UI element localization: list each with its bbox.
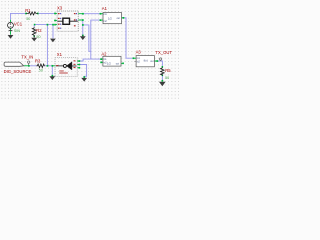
svg-text:X3: X3 xyxy=(57,5,63,10)
svg-text:R1: R1 xyxy=(25,8,31,13)
svg-text:R2: R2 xyxy=(36,28,42,33)
svg-text:R5: R5 xyxy=(165,68,171,73)
svg-text:out: out xyxy=(150,60,154,63)
svg-text:TX_OUT: TX_OUT xyxy=(155,50,172,55)
svg-text:SIN: SIN xyxy=(14,29,20,33)
svg-text:R3: R3 xyxy=(35,59,41,64)
svg-text:50: 50 xyxy=(165,76,169,80)
svg-text:TX_IN: TX_IN xyxy=(21,55,33,60)
svg-text:f(v): f(v) xyxy=(144,59,148,63)
svg-text:50: 50 xyxy=(26,17,30,21)
svg-text:50: 50 xyxy=(36,35,40,39)
svg-text:A3: A3 xyxy=(136,49,142,54)
svg-text:out: out xyxy=(116,63,120,66)
svg-text:A1: A1 xyxy=(102,6,108,11)
svg-text:VC1: VC1 xyxy=(14,21,23,26)
svg-text:1/2: 1/2 xyxy=(108,17,112,21)
svg-text:X1: X1 xyxy=(57,52,63,57)
svg-text:DIG_SOURCE: DIG_SOURCE xyxy=(4,69,32,74)
svg-text:1/2: 1/2 xyxy=(107,62,111,66)
svg-text:A2: A2 xyxy=(101,51,107,56)
svg-text:50: 50 xyxy=(39,69,43,73)
svg-text:out: out xyxy=(117,17,121,20)
